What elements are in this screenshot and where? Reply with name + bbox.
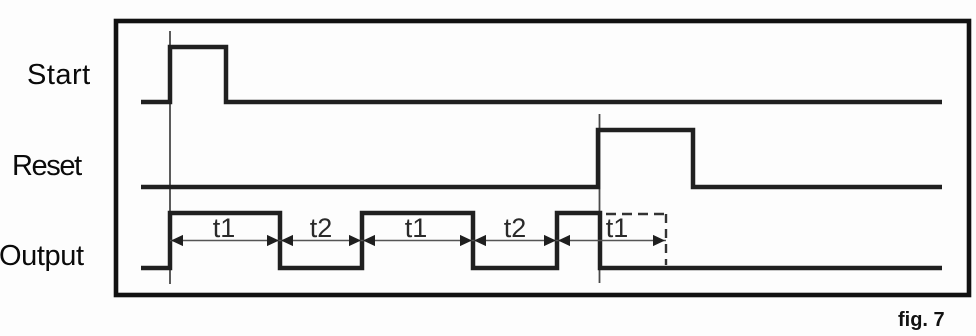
svg-text:t1: t1 (213, 213, 236, 243)
svg-text:Reset: Reset (12, 150, 82, 182)
svg-text:t1: t1 (405, 213, 428, 243)
svg-text:t2: t2 (504, 213, 527, 243)
svg-text:t2: t2 (310, 213, 333, 243)
svg-text:Start: Start (27, 59, 91, 91)
svg-text:Output: Output (0, 240, 84, 272)
svg-text:t1: t1 (606, 213, 629, 243)
svg-text:fig. 7: fig. 7 (898, 309, 945, 331)
